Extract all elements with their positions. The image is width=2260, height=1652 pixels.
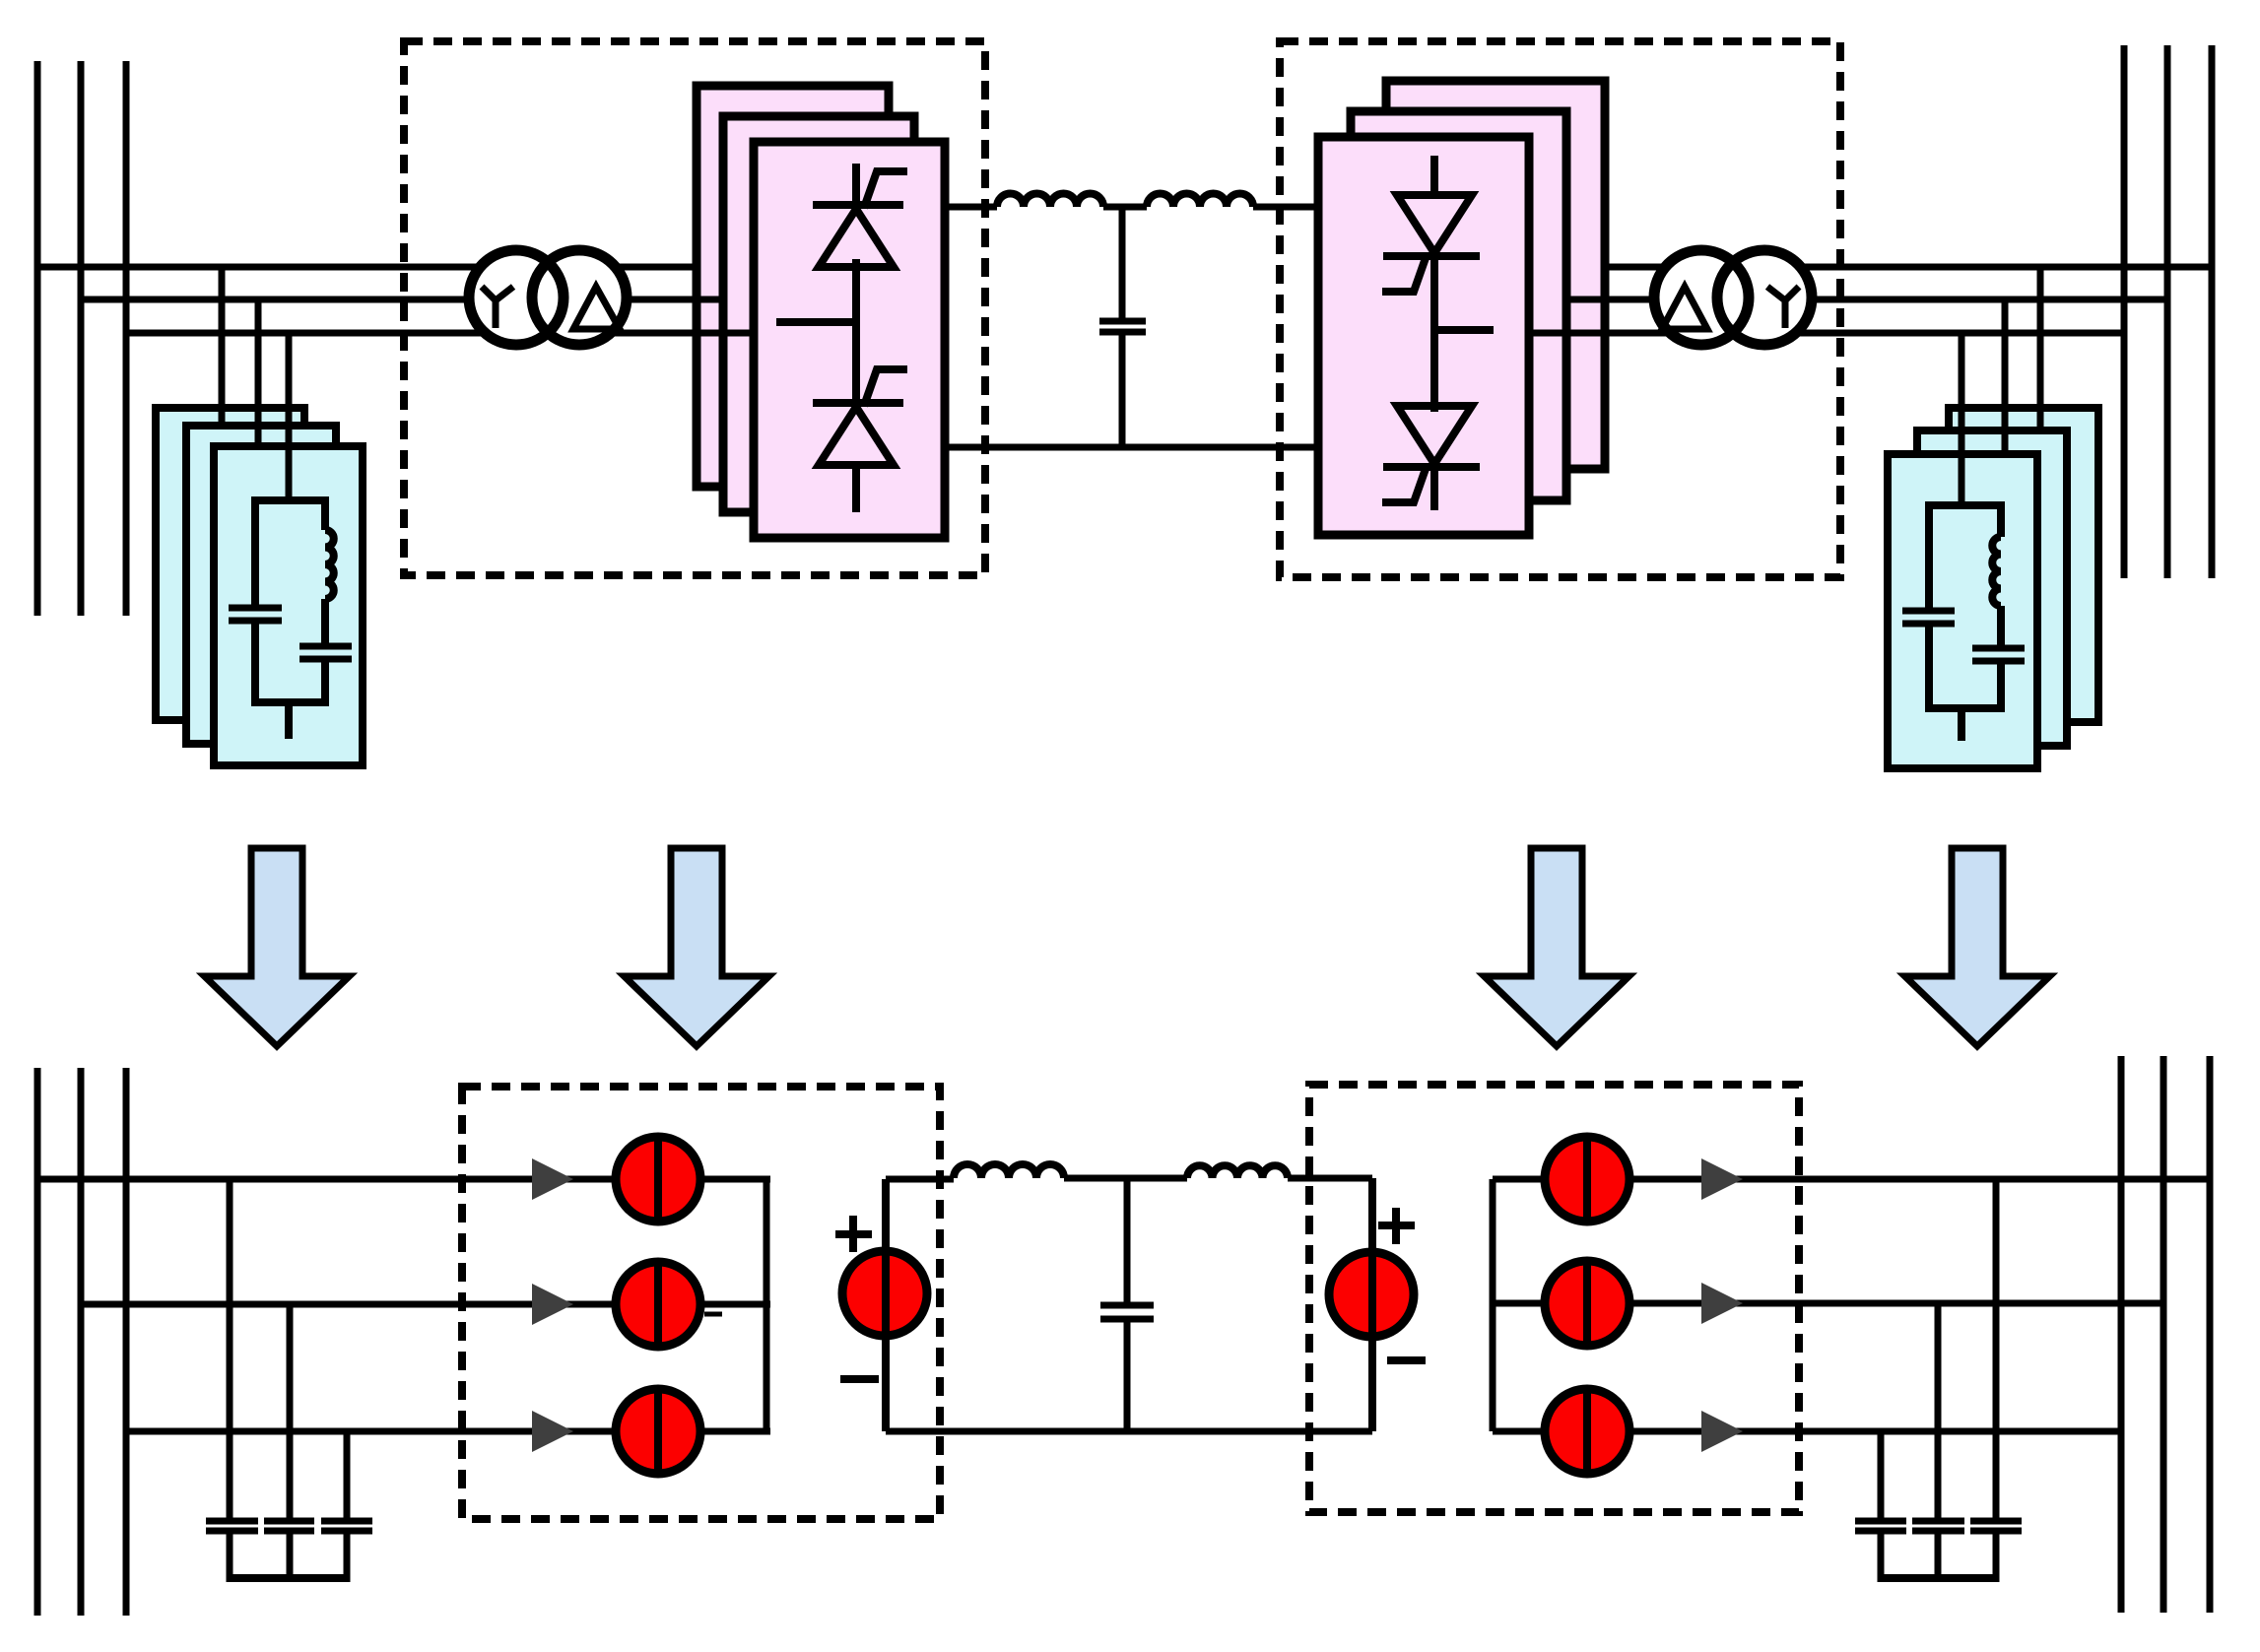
current source Ia right: [1545, 1137, 1629, 1222]
DC reactor bottom 2: [1187, 1165, 1288, 1178]
filter stub right: [1958, 708, 1965, 741]
dashed box: inverter station: [1280, 41, 1840, 577]
DC capacitor bottom Cd: [1100, 1302, 1154, 1309]
cap 2 lower lead right: [1935, 1531, 1942, 1582]
filter inductor L1f: [325, 530, 334, 599]
wire: left branch to C1 right: [1925, 501, 1933, 608]
wire below V4: [1430, 465, 1438, 510]
AC filter bank left, front unit: [214, 446, 363, 765]
wire: tap line C to shunt cap 1 right: [1878, 1431, 1885, 1521]
smoothing reactor Ld2: [1147, 194, 1253, 208]
DC capacitor bottom top lead: [1124, 1178, 1131, 1302]
wire: tap phase C into front filter: [286, 333, 293, 504]
dashed box: inverter equivalent model: [1309, 1085, 1799, 1512]
Vd1 plus label: [835, 1216, 872, 1252]
AC line B left bottom: [81, 1301, 617, 1308]
current source Ia left: [616, 1137, 700, 1222]
DC filter capacitor Cd: [1099, 318, 1146, 325]
bottom bus bar L2: [78, 1068, 85, 1616]
filter capacitor C1 right: [1902, 608, 1955, 615]
thyristor V1 triangle: [819, 209, 894, 267]
wire: left branch to C1: [251, 496, 259, 605]
thyristor V3 triangle: [1397, 195, 1472, 253]
AC filter bank left, rear unit: [156, 408, 304, 720]
thyristor V2 cathode bar: [813, 399, 903, 407]
flow arrow 4: [1905, 848, 2050, 1046]
current direction arrowhead B left: [532, 1284, 573, 1325]
phase tap bar inside right converter: [1434, 326, 1494, 334]
wire: tap phase B to middle filter right: [2002, 299, 2009, 454]
phase line B right: [1566, 297, 2167, 303]
bottom bus bar R1: [2118, 1056, 2125, 1613]
wire below C2 right: [1997, 663, 2005, 712]
minus tick near Ib: [704, 1312, 722, 1317]
DC filter capacitor top lead: [1119, 207, 1126, 318]
wire between V1 and V2: [852, 259, 860, 406]
filter capacitor C1: [229, 605, 282, 612]
AC line B right bottom: [1629, 1300, 2163, 1307]
filter capacitor C2 right: [1972, 645, 2025, 652]
DC line: rectifier to reactor: [945, 204, 997, 211]
converter bridge right, middle unit: [1351, 111, 1566, 500]
T1 Delta symbol: [573, 287, 620, 329]
wire below L1f right: [1997, 606, 2005, 645]
filter loop top wire: [255, 496, 325, 504]
thyristor V4 anode bar: [1383, 463, 1480, 471]
thyristor V3 top lead: [1430, 156, 1438, 196]
wire below V2: [852, 463, 860, 512]
DC filter capacitor bottom lead: [1119, 335, 1126, 447]
wire below C1 right: [1925, 626, 1933, 712]
shunt capacitor 1 right: [1855, 1518, 1906, 1525]
phase line C left: [126, 330, 754, 337]
Vd1 through wire: [882, 1179, 890, 1431]
wire: tap phase A to rear filter right: [2037, 267, 2044, 430]
current source Ic right: [1545, 1389, 1629, 1474]
thyristor V1 gate: [864, 171, 907, 208]
AC filter bank right, rear unit: [1949, 408, 2098, 722]
wire: bus to source Ic right: [1493, 1428, 1546, 1435]
converter bridge right, front unit: [1318, 137, 1529, 535]
wire reactor2 to Vd2: [1288, 1175, 1372, 1182]
bus bar R2: [2164, 45, 2171, 578]
transformer T1 windings (Y-D): [469, 250, 564, 345]
current direction arrowhead A left: [532, 1158, 573, 1200]
shunt cap common bar left: [230, 1574, 347, 1582]
filter loop bottom wire right: [1929, 704, 2001, 712]
converter bridge left, front unit: [754, 142, 945, 538]
T2 Y symbol: [1767, 287, 1799, 328]
wire: right branch to L1f: [321, 496, 329, 530]
DC voltage source Vd2: [1329, 1252, 1414, 1337]
thyristor V1 top lead: [852, 164, 860, 206]
AC filter bank right, front unit: [1888, 454, 2037, 768]
bottom bus bar L3: [123, 1068, 130, 1616]
shunt cap common bar right: [1881, 1574, 1996, 1582]
bottom bus bar R2: [2160, 1056, 2167, 1613]
phase line C right: [1529, 330, 2124, 337]
filter capacitor C2: [299, 643, 352, 650]
DC return line: [945, 444, 1318, 451]
current source Ic left: [616, 1389, 700, 1474]
wire: tap line C to shunt cap 3 left: [344, 1431, 351, 1521]
thyristor V4 triangle: [1397, 406, 1472, 464]
bus bar L3: [123, 61, 130, 616]
cap 2 lower lead left: [287, 1531, 294, 1582]
wire below C2: [321, 662, 329, 706]
T1 Y symbol: [482, 287, 513, 328]
DC voltage source Vd1: [842, 1251, 927, 1336]
phase line A left: [37, 264, 697, 271]
wire: bus to source Ib right: [1493, 1300, 1546, 1307]
current direction arrowhead C right: [1701, 1411, 1743, 1452]
flow arrow 1: [205, 848, 350, 1046]
flow arrow 3: [1485, 848, 1629, 1046]
Vd1 minus label: [840, 1375, 879, 1383]
converter bridge left, rear unit: [697, 86, 889, 487]
DC voltage source left: feed wire: [886, 1176, 954, 1183]
converter bridge right, rear unit: [1386, 81, 1605, 469]
AC line A left bottom: [37, 1176, 617, 1183]
thyristor V3 gate: [1382, 255, 1427, 292]
smoothing reactor Ld1: [997, 194, 1103, 208]
wire: tap phase A to rear filter: [219, 267, 226, 430]
thyristor V1 cathode bar: [813, 201, 903, 209]
phase tap bar inside left converter: [776, 318, 856, 326]
Vd2 through wire: [1368, 1178, 1376, 1431]
DC bottom return line: [886, 1428, 1372, 1435]
bottom bus bar R3: [2207, 1056, 2214, 1613]
wire: source Ia to collector bus: [699, 1176, 770, 1183]
Vd2 plus label: [1378, 1208, 1415, 1244]
filter stub: [285, 702, 293, 739]
AC line C left bottom: [126, 1428, 617, 1435]
collector bus right: [1490, 1179, 1496, 1431]
filter loop top wire right: [1929, 501, 2001, 509]
T2 Delta symbol: [1662, 287, 1707, 329]
wire reactor1 to node: [1064, 1175, 1187, 1182]
wire: tap phase C into front filter right: [1959, 333, 1965, 509]
AC line C right bottom: [1629, 1428, 2121, 1435]
converter bridge left, middle unit: [723, 116, 914, 512]
AC filter bank right, middle unit: [1917, 430, 2067, 746]
current direction arrowhead A right: [1701, 1158, 1743, 1200]
bus bar R1 (right AC system): [2121, 45, 2128, 578]
current direction arrowhead C left: [532, 1411, 573, 1452]
cap 1 lower lead left: [227, 1531, 233, 1582]
thyristor V4 gate: [1382, 466, 1427, 502]
wire: tap line B to shunt cap 2 left: [287, 1304, 294, 1521]
DC reactor bottom 1: [954, 1164, 1064, 1178]
shunt capacitor 3 left: [321, 1518, 372, 1525]
wire between V3 and V4: [1430, 252, 1438, 412]
bus bar L2: [78, 61, 85, 616]
shunt capacitor 2 left: [264, 1518, 314, 1525]
dashed box: rectifier equivalent model: [462, 1087, 940, 1519]
shunt capacitor 1 left: [206, 1518, 258, 1525]
thyristor V3 anode bar: [1383, 252, 1480, 260]
collector bus left: [764, 1179, 770, 1431]
dashed box: rectifier station: [404, 41, 985, 575]
thyristor V2 triangle: [819, 407, 894, 465]
phase line A right: [1605, 264, 2212, 271]
AC filter bank left, middle unit: [186, 426, 336, 744]
shunt capacitor 2 right: [1912, 1518, 1964, 1525]
wire below L1f: [321, 599, 329, 643]
wire: tap line B to shunt cap 2 right: [1935, 1303, 1942, 1521]
transformer T2 windings (D-Y): [1654, 250, 1749, 345]
wire: bus to source Ia right: [1493, 1176, 1546, 1183]
bus bar L1 (left AC system): [34, 61, 41, 616]
filter loop bottom wire: [255, 698, 325, 706]
bottom bus bar L1: [34, 1068, 41, 1616]
wire: tap line A to shunt cap 3 right: [1993, 1179, 2000, 1521]
wire: tap phase B to middle filter: [255, 299, 262, 450]
wire reactor to inverter: [1253, 204, 1318, 211]
current source Ib right: [1545, 1261, 1629, 1346]
wire: right branch to L1f right: [1997, 501, 2005, 537]
cap 3 lower lead left: [344, 1531, 351, 1582]
wire: source Ic to collector bus: [699, 1428, 770, 1435]
filter inductor L1f right: [1992, 537, 2001, 606]
cap 1 lower lead right: [1878, 1531, 1885, 1582]
flow arrow 2: [625, 848, 769, 1046]
wire: source Ib to collector bus: [699, 1301, 770, 1308]
AC line A right bottom: [1629, 1176, 2210, 1183]
wire reactor to node M: [1103, 204, 1147, 211]
wire below C1: [251, 623, 259, 706]
current source Ib left: [616, 1262, 700, 1347]
Vd2 minus label: [1387, 1356, 1426, 1364]
thyristor V2 gate: [864, 369, 907, 406]
cap 3 lower lead right: [1993, 1531, 2000, 1582]
current direction arrowhead B right: [1701, 1283, 1743, 1324]
shunt capacitor 3 right: [1970, 1518, 2022, 1525]
DC capacitor bottom lower lead: [1124, 1322, 1131, 1431]
bus bar R3: [2209, 45, 2216, 578]
wire: tap line A to shunt cap 1 left: [227, 1179, 233, 1521]
phase line B left: [81, 297, 723, 303]
